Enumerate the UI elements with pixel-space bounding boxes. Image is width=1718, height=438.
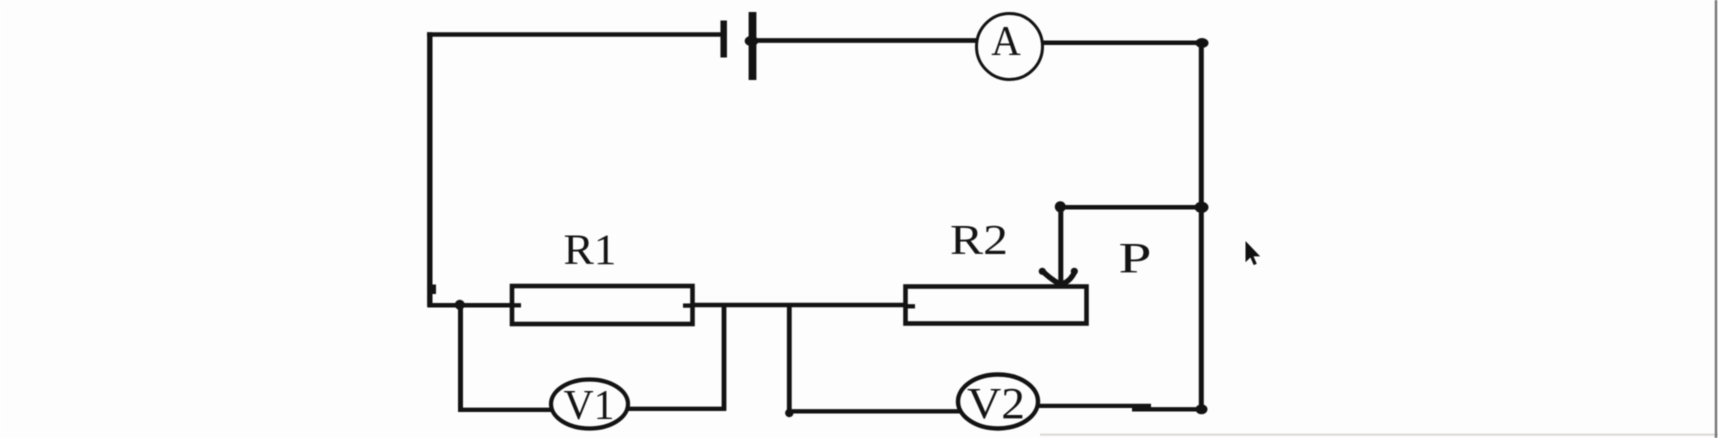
wire battery to ammeter xyxy=(753,38,978,43)
voltmeter V1 ellipse xyxy=(551,380,628,429)
node dot top right corner xyxy=(1196,38,1209,48)
potentiometer R2 body xyxy=(906,287,1087,324)
potentiometer R2 left lead stub xyxy=(906,304,915,308)
wire V1 bottom right xyxy=(624,407,726,411)
wire top right from ammeter to corner xyxy=(1040,41,1201,46)
wire V2 bottom right segment a xyxy=(1034,404,1151,408)
node dot V2 branch bottom xyxy=(785,409,793,417)
bottom gray line xyxy=(1040,434,1718,436)
resistor R1 body xyxy=(512,286,693,324)
resistor R1 left lead stub xyxy=(512,303,521,307)
wire top horizontal from left corner to battery xyxy=(427,32,722,37)
wire V1 bottom left xyxy=(458,408,556,412)
voltmeter V2 ellipse xyxy=(958,375,1038,429)
wiper arrowhead tip blob xyxy=(1055,280,1067,287)
right edge gray border xyxy=(1715,0,1717,438)
svg-text:R1: R1 xyxy=(564,227,617,274)
svg-text:V2: V2 xyxy=(967,379,1025,428)
wiper arrowhead left wing xyxy=(1042,270,1060,284)
node dot at battery positive plate xyxy=(745,36,759,46)
svg-text:V1: V1 xyxy=(564,383,615,429)
node dot tap right junction xyxy=(1195,202,1209,213)
wire right vertical xyxy=(1199,41,1204,411)
ammeter A1 circle xyxy=(977,14,1043,80)
wire V1 left branch vertical xyxy=(458,303,463,412)
wire V2 left branch vertical xyxy=(787,303,792,414)
wire V1 right branch vertical xyxy=(722,303,727,411)
svg-text:A: A xyxy=(991,19,1021,65)
battery positive long plate xyxy=(749,12,757,80)
wiper arrowhead right wing xyxy=(1063,272,1075,285)
wire left vertical xyxy=(427,32,432,307)
wire main R1 to R2 xyxy=(690,303,908,308)
wire wiper vertical xyxy=(1058,206,1063,282)
node tick on left wire xyxy=(430,285,436,295)
battery negative short plate xyxy=(720,21,727,58)
node dot bottom right corner xyxy=(1196,404,1208,414)
node junction dot V1 left xyxy=(455,300,465,310)
wire V2 bottom left xyxy=(787,409,962,413)
svg-text:P: P xyxy=(1119,236,1152,283)
wiper arrowhead left wing end blob xyxy=(1039,268,1046,275)
wire potentiometer tap horizontal xyxy=(1059,205,1201,210)
mouse cursor xyxy=(1246,241,1261,265)
wire mid-left to R1 xyxy=(428,303,514,308)
resistor R1 right inner tick xyxy=(683,303,692,307)
node dot tap left xyxy=(1055,201,1066,212)
wire V2 bottom right segment b xyxy=(1132,407,1202,411)
wiper arrowhead right wing end blob xyxy=(1071,268,1078,275)
svg-text:R2: R2 xyxy=(950,218,1008,264)
